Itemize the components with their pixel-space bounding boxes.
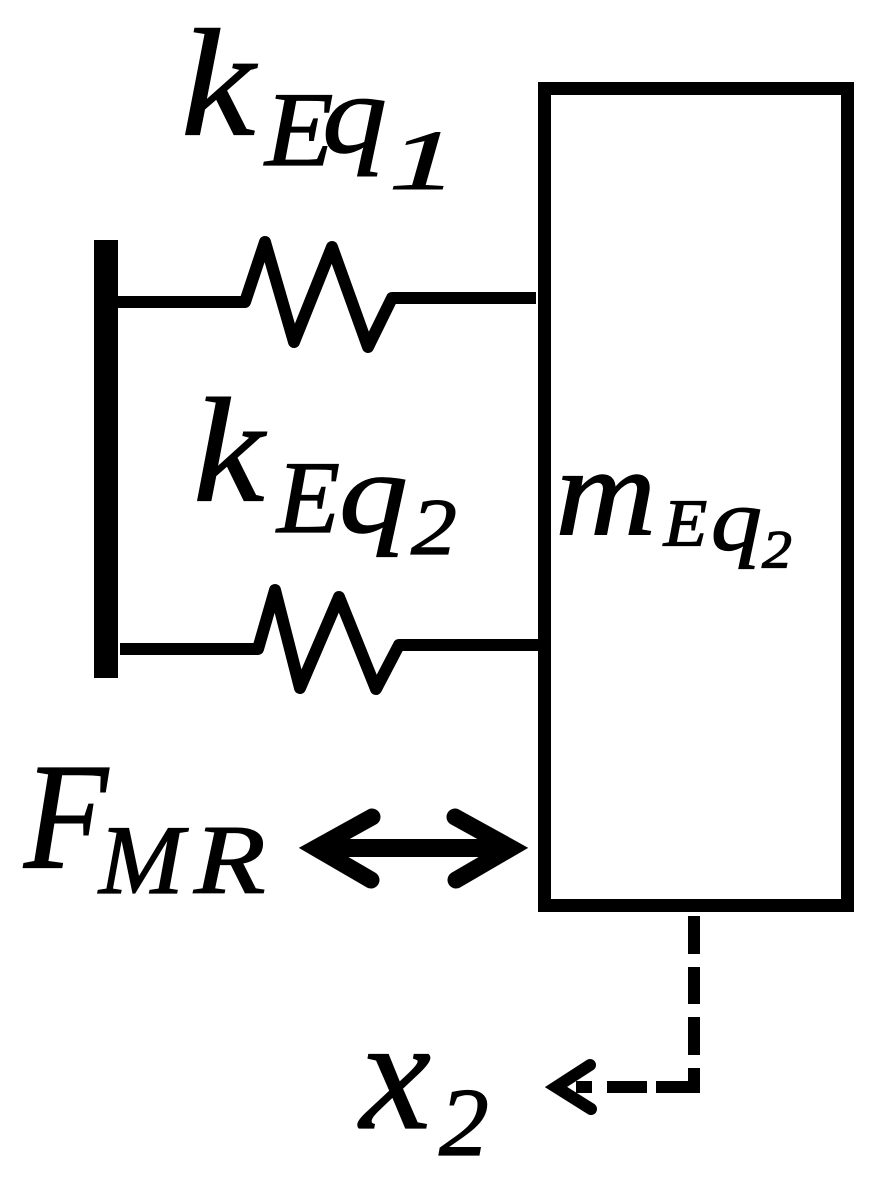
svg-text:2: 2 bbox=[411, 482, 457, 571]
svg-text:q: q bbox=[322, 53, 387, 177]
displacement x2 dashed stub at arrow bbox=[576, 1081, 592, 1093]
svg-text:M: M bbox=[97, 805, 189, 915]
displacement x2 dashed line vertical dash 3 bbox=[688, 1017, 700, 1055]
svg-text:x: x bbox=[358, 985, 431, 1163]
spring k_Eq1 (top spring: wall to mass) bbox=[118, 242, 536, 347]
svg-text:2: 2 bbox=[762, 520, 792, 580]
svg-text:k: k bbox=[181, 0, 258, 168]
force arrow right head bbox=[455, 817, 511, 880]
displacement x2 dashed line vertical dash 2 bbox=[688, 967, 700, 1004]
svg-text:q: q bbox=[711, 472, 762, 570]
svg-text:R: R bbox=[193, 805, 266, 915]
svg-text:q: q bbox=[339, 431, 408, 558]
spring k_Eq2 (lower spring: wall to mass) bbox=[120, 590, 538, 689]
force arrow left head bbox=[316, 817, 372, 880]
displacement x2 dashed line vertical dash 1 bbox=[688, 916, 700, 954]
svg-text:m: m bbox=[555, 422, 656, 561]
svg-text:E: E bbox=[663, 486, 707, 561]
svg-text:E: E bbox=[275, 441, 340, 555]
force arrow F_MR (double-headed) shaft bbox=[322, 839, 504, 857]
fixed wall bar bbox=[94, 240, 118, 678]
displacement x2 dashed horizontal dash bbox=[607, 1081, 647, 1093]
mass block m_Eq2 bbox=[545, 89, 848, 906]
svg-text:k: k bbox=[193, 368, 266, 533]
svg-text:1: 1 bbox=[389, 113, 457, 207]
displacement x2 arrowhead bbox=[556, 1065, 591, 1109]
svg-text:2: 2 bbox=[439, 1069, 489, 1177]
svg-text:F: F bbox=[23, 733, 109, 901]
displacement x2 dashed corner piece bbox=[656, 1068, 694, 1087]
